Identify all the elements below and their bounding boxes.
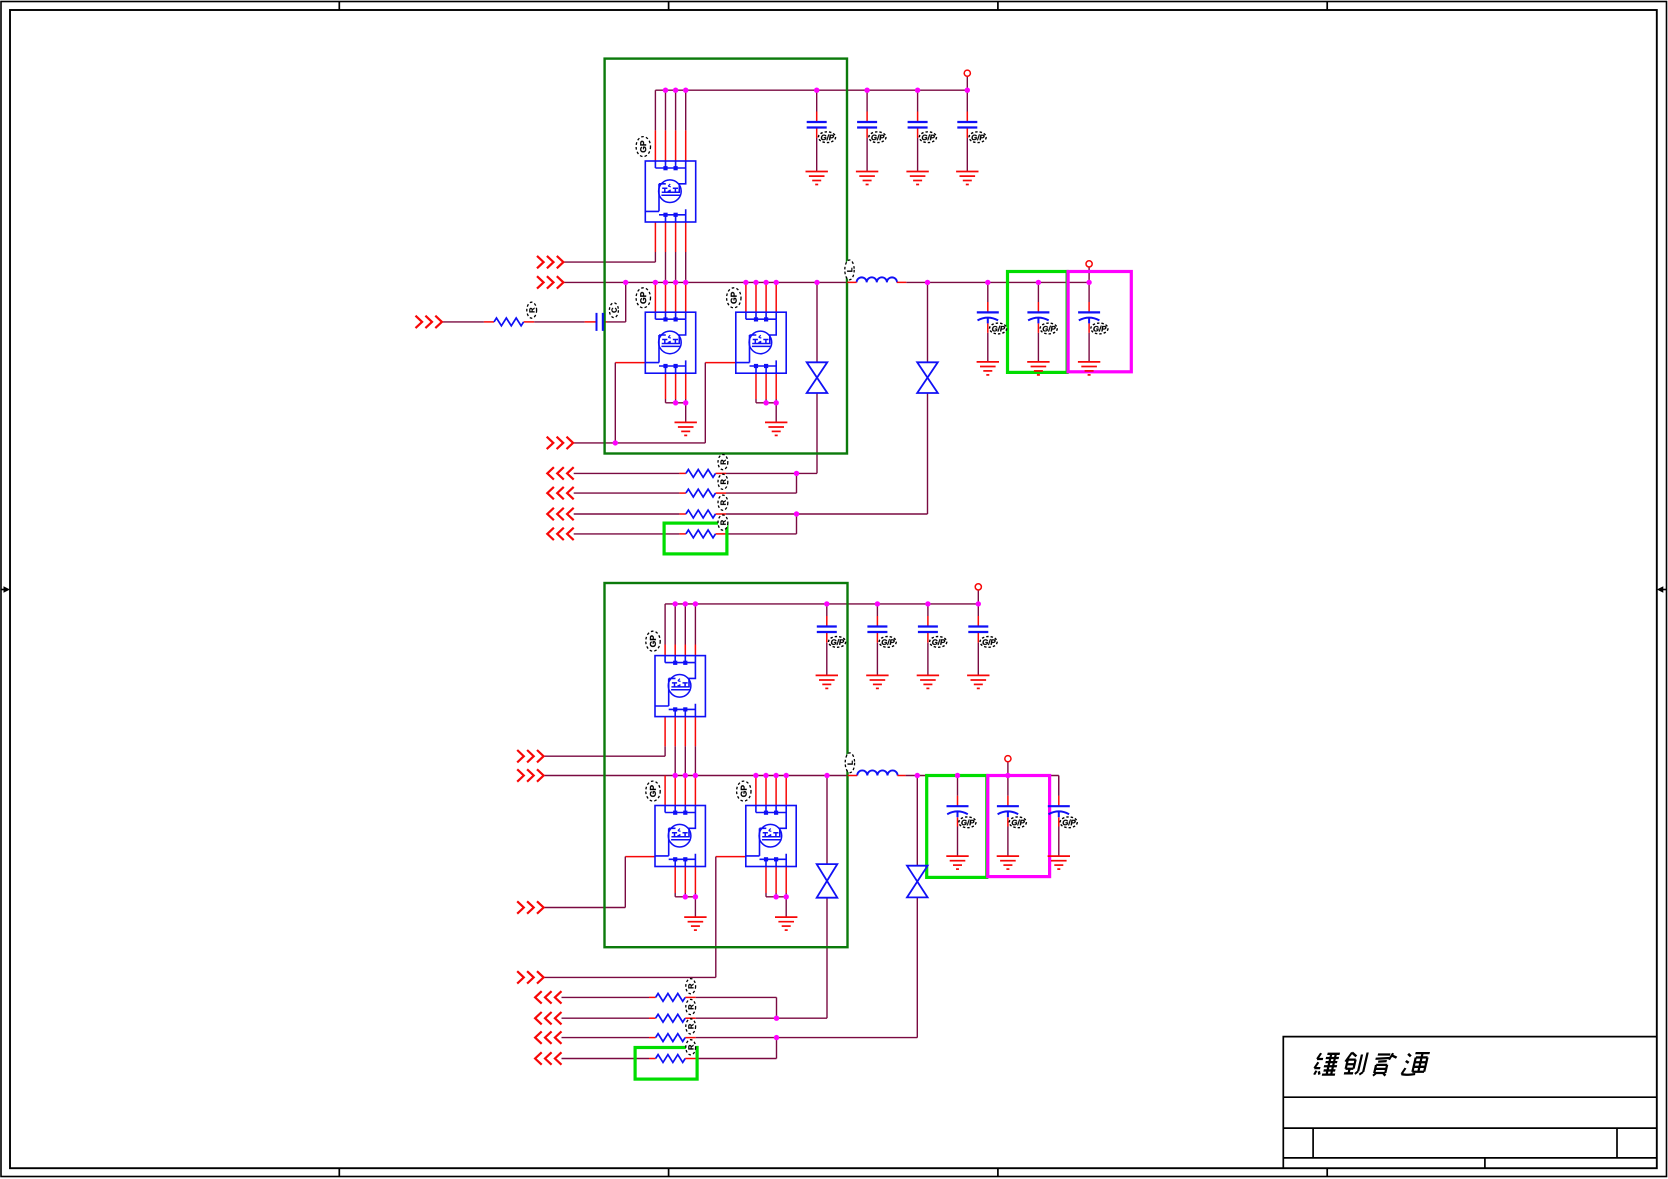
highlight box magenta 1 xyxy=(1068,272,1131,372)
junctions Q5 Q6 source bars xyxy=(683,894,688,899)
label C4 xyxy=(969,132,986,143)
wire output cap stubs xyxy=(987,282,989,302)
highlight box magenta 2 xyxy=(988,776,1050,877)
resistor R5 xyxy=(656,994,686,1002)
wire sense row 4 xyxy=(574,533,680,535)
label C8 xyxy=(829,637,846,648)
diode D4 net xyxy=(916,776,918,866)
transistor Q6 xyxy=(746,806,796,867)
wire sense row 2 xyxy=(574,492,680,494)
ground C12 xyxy=(946,856,968,869)
wire Q2 gate net xyxy=(615,362,645,364)
label R1 xyxy=(718,455,728,470)
connector K8 row4b xyxy=(535,1052,561,1064)
wire Q6 source to ground xyxy=(765,867,767,894)
label C10 xyxy=(930,637,947,648)
ground C2 xyxy=(856,172,878,185)
wire Q2 drain pins xyxy=(654,282,656,312)
connector J2 SW1 xyxy=(537,276,563,288)
label C14 xyxy=(1060,817,1077,828)
connector J5 HG2 xyxy=(517,750,543,762)
resistor R6 xyxy=(656,1014,686,1022)
highlight box green 2 xyxy=(927,776,987,878)
diode D2 net xyxy=(927,282,929,362)
wire Q3 gate net xyxy=(705,362,736,364)
label R3 xyxy=(718,495,728,510)
junctions SW2 bus xyxy=(673,773,678,778)
label C5 xyxy=(990,323,1007,334)
terminal VOUT2 circle xyxy=(1005,756,1011,762)
wire Q5 gate net xyxy=(625,856,655,858)
diode D3 net xyxy=(826,776,828,865)
ground C3 xyxy=(906,172,928,185)
capacitor C10 xyxy=(918,616,938,643)
title text company xyxy=(1313,1053,1340,1074)
inductor L2 xyxy=(857,770,897,775)
label C6 xyxy=(1040,323,1057,334)
wire Q3 drain pins xyxy=(745,282,747,312)
highlight box green 1 xyxy=(1008,272,1068,373)
wire Q3 source to ground xyxy=(755,373,757,399)
capacitor C4 xyxy=(957,112,977,139)
terminal VIN2 stub xyxy=(977,590,979,604)
wire Q4 source pins xyxy=(674,717,676,747)
capacitor C0 series xyxy=(597,313,603,331)
junction row3b xyxy=(774,1035,779,1040)
capacitor C9 xyxy=(867,616,887,643)
ground C14 xyxy=(1048,856,1070,869)
transistor Q3 xyxy=(736,312,786,373)
label Q1 xyxy=(636,137,650,157)
terminal VOUT1 circle xyxy=(1086,261,1092,267)
wire HG1 input net xyxy=(564,261,655,263)
ground C13 xyxy=(997,856,1019,869)
connector J1 HG1 xyxy=(537,256,563,268)
label Q3 xyxy=(727,288,741,308)
capacitor C12 xyxy=(947,796,969,827)
transistor Q4 xyxy=(655,656,705,717)
wire row1b-row2b link xyxy=(776,997,778,1018)
label R8 xyxy=(686,1040,696,1055)
ground C6 xyxy=(1027,362,1049,375)
label R6 xyxy=(686,999,696,1014)
ground C10 xyxy=(917,675,939,688)
junctions SW1 bus xyxy=(623,280,628,285)
connector J3 RC xyxy=(416,316,442,328)
resistor R0 xyxy=(494,318,524,326)
power stage box 1 xyxy=(605,59,847,454)
label L2 xyxy=(845,753,854,773)
ground C11 xyxy=(967,675,989,688)
connector K4 row4 xyxy=(547,528,573,540)
terminal VOUT1 stub xyxy=(1088,267,1090,282)
wire sense row 1 xyxy=(574,472,680,474)
wire sense row 3b xyxy=(562,1037,650,1039)
wire Q6 gate net xyxy=(716,856,746,858)
terminal VOUT2 stub xyxy=(1007,762,1009,776)
wire RC snubber net xyxy=(443,321,484,323)
wire SW1 bus xyxy=(564,281,847,283)
capacitor C5 xyxy=(977,302,999,333)
diode D3 xyxy=(817,864,838,898)
diode D4 xyxy=(907,866,928,898)
label R4 xyxy=(718,515,728,530)
resistor R7 xyxy=(656,1034,686,1042)
junctions VIN2 bus xyxy=(673,601,678,606)
diode D1 xyxy=(807,362,828,393)
connector K7 row3b xyxy=(535,1031,561,1043)
power stage box 2 xyxy=(605,583,848,947)
ground C7 xyxy=(1078,362,1100,375)
wire Q6 drain pins xyxy=(755,776,757,806)
wire VIN2 bus xyxy=(665,603,978,605)
label R7 xyxy=(686,1019,696,1034)
wire LG1 gate drive net xyxy=(574,442,706,444)
label L1 xyxy=(845,260,854,280)
capacitor C6 xyxy=(1027,302,1049,333)
terminal VIN2 circle xyxy=(975,584,981,590)
wire row3b-row4b link xyxy=(776,1038,778,1059)
transistor Q2 xyxy=(645,312,695,373)
diode D2 xyxy=(917,362,938,393)
wire VIN1 bus xyxy=(655,89,967,91)
connector K1 row1 xyxy=(547,467,573,479)
connector K6 row2b xyxy=(535,1012,561,1024)
wire HG2 input net xyxy=(544,755,665,757)
wire LG2b gate drive xyxy=(544,976,716,978)
junctions VIN1 bus xyxy=(663,88,668,93)
capacitor C14 xyxy=(1048,796,1070,827)
wire Q2 source to ground xyxy=(665,373,667,399)
label R2 xyxy=(718,474,728,489)
label C7 xyxy=(1091,323,1108,334)
wire Q4 gate pin xyxy=(664,717,666,747)
label C3 xyxy=(919,132,936,143)
terminal VIN1 xyxy=(966,76,968,90)
junction row1 xyxy=(794,471,799,476)
label Q2 xyxy=(636,288,650,308)
label R0 xyxy=(527,302,537,318)
label C13 xyxy=(1009,817,1026,828)
connector J7 LG2a xyxy=(517,901,543,913)
ground C9 xyxy=(866,675,888,688)
junctions Q2 Q3 source bars xyxy=(673,400,678,405)
ground Q5 xyxy=(684,917,706,930)
connector J4 LG1 xyxy=(547,437,573,449)
wire LG2a gate drive xyxy=(544,907,625,909)
wire row1-row2 link xyxy=(796,473,798,493)
terminal VIN1 circle xyxy=(964,70,970,76)
wire Q1 source pins xyxy=(665,222,667,252)
wire sense row 2b xyxy=(562,1017,650,1019)
resistor R8 xyxy=(656,1055,686,1063)
ground Q6 xyxy=(775,917,797,930)
ground C8 xyxy=(816,675,838,688)
title block xyxy=(1283,1037,1657,1168)
resistor R2 xyxy=(686,489,716,497)
connector K2 row2 xyxy=(547,487,573,499)
connector J6 SW2 xyxy=(517,769,543,781)
capacitor C1 xyxy=(807,112,827,139)
ground C5 xyxy=(977,362,999,375)
junction row2b xyxy=(774,1016,779,1021)
capacitor C2 xyxy=(857,112,877,139)
highlight box R8 xyxy=(635,1048,697,1080)
resistor R1 xyxy=(686,470,716,478)
connector J8 LG2b xyxy=(517,971,543,983)
label Q6 xyxy=(737,781,751,801)
capacitor C11 xyxy=(968,616,988,643)
border zone ticks xyxy=(338,2,340,11)
wire input cap stubs 2 xyxy=(826,604,828,616)
label C0 xyxy=(609,303,618,318)
label R5 xyxy=(686,979,696,994)
ground C4 xyxy=(956,172,978,185)
ground C1 xyxy=(806,172,828,185)
wire Q5 source to ground xyxy=(674,867,676,894)
resistor R3 xyxy=(686,510,716,518)
wire sense row 4b xyxy=(562,1058,650,1060)
highlight box R4 xyxy=(664,523,727,554)
capacitor C3 xyxy=(908,112,928,139)
label C2 xyxy=(869,132,886,143)
border mid arrow left xyxy=(1,589,7,591)
label C11 xyxy=(980,637,997,648)
connector K5 row1b xyxy=(535,991,561,1003)
wire row3-row4 link xyxy=(796,514,798,534)
transistor Q5 xyxy=(655,806,705,867)
capacitor C13 xyxy=(997,796,1019,827)
border mid arrow right xyxy=(1661,589,1667,591)
wire Q1 drain pins xyxy=(654,90,656,130)
label Q4 xyxy=(646,631,660,651)
wire output cap stubs 2 xyxy=(957,776,959,796)
resistor R4 xyxy=(686,530,716,538)
capacitor C7 xyxy=(1078,302,1100,333)
label C12 xyxy=(959,817,976,828)
wire sense row 1b xyxy=(562,996,650,998)
wire input cap stubs xyxy=(816,90,818,111)
junction LG1 xyxy=(613,440,618,445)
inductor L1 xyxy=(857,277,897,282)
wire Q1 gate pin xyxy=(654,222,656,252)
label C9 xyxy=(879,637,896,648)
connector K3 row3 xyxy=(547,508,573,520)
junction row3 xyxy=(794,511,799,516)
transistor Q1 xyxy=(645,161,695,222)
wire SW2 bus xyxy=(544,775,848,777)
wire sense row 3 xyxy=(574,513,680,515)
ground Q3 xyxy=(765,422,787,435)
diode D1 net xyxy=(816,282,818,362)
wire Q5 drain pins xyxy=(664,776,666,806)
ground Q2 xyxy=(675,422,697,435)
label Q5 xyxy=(646,781,660,801)
label C1 xyxy=(818,132,835,143)
capacitor C8 xyxy=(817,616,837,643)
wire Q4 drain pins xyxy=(664,604,666,645)
